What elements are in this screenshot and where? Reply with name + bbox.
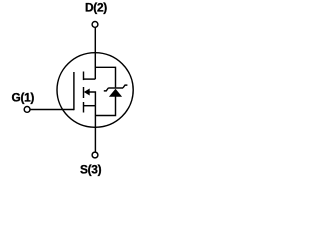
- svg-text:S(3): S(3): [80, 162, 102, 176]
- svg-text:G(1): G(1): [12, 90, 35, 104]
- svg-text:D(2): D(2): [85, 1, 107, 15]
